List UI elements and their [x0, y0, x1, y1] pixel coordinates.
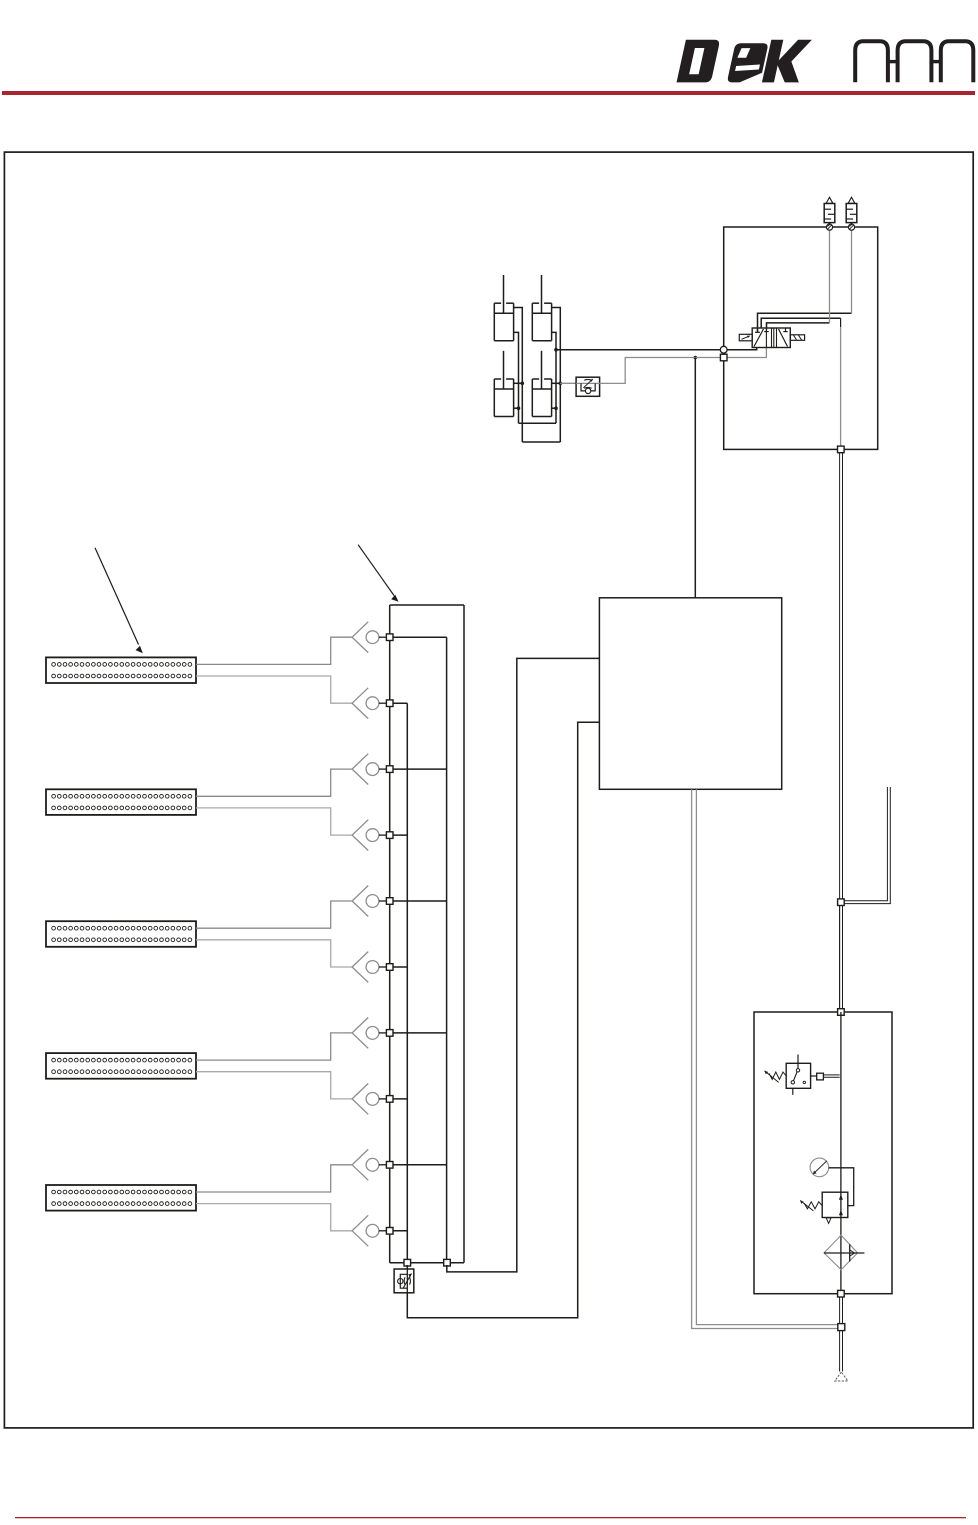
- manifold bus line: [389, 605, 391, 1263]
- bus node 4: [386, 832, 393, 839]
- manifold stub 10: [390, 1230, 408, 1232]
- bulkhead circle node: [720, 346, 727, 353]
- cylinder BR: [532, 351, 551, 417]
- TL bottom port pipe: [514, 332, 519, 423]
- junction dots: [517, 348, 697, 410]
- hose plate 1 lower: [196, 676, 352, 703]
- bus node 9: [386, 1162, 393, 1169]
- bus node 5: [386, 898, 393, 905]
- manifold right edge: [463, 605, 465, 1263]
- manifold stub 5: [390, 900, 447, 902]
- pipe flow valve to valve port: [600, 348, 767, 384]
- vacuum tooling plate 1: [46, 657, 196, 683]
- supply double line mid: [840, 453, 843, 1009]
- valve 5/2: [739, 328, 804, 348]
- manifold stub 7: [390, 1032, 447, 1034]
- pipe flowvalve to pump: [407, 722, 599, 1317]
- bus node 7: [386, 1030, 393, 1037]
- pipe rod-side to flow valve: [560, 382, 576, 384]
- manifold stub 6: [390, 966, 408, 968]
- pressure gauge: [810, 1158, 854, 1206]
- pressure switch: [765, 1055, 840, 1095]
- manifold bottom edge: [390, 1262, 464, 1264]
- hose plate 2 upper: [196, 769, 352, 796]
- leader arrow to plate: [95, 548, 143, 654]
- FRL box: [754, 1012, 892, 1294]
- bus node 10: [386, 1228, 393, 1235]
- exhaust silencer right: [846, 197, 857, 230]
- enclosure (print head): [724, 227, 878, 449]
- BR top port pipe: [552, 382, 561, 384]
- FRL top node: [838, 1009, 845, 1016]
- vacuum pump box: [599, 598, 781, 790]
- bus node 2: [386, 700, 393, 707]
- pipe channel A down: [406, 1265, 408, 1269]
- silencer drop left: [829, 230, 831, 323]
- bulkhead square node: [720, 354, 727, 361]
- supply line upper: [840, 318, 842, 449]
- bus node 3: [386, 766, 393, 773]
- hose plate 2 lower: [196, 808, 352, 835]
- vacuum tooling plate 2: [46, 789, 196, 815]
- quick coupling 1: [352, 622, 386, 653]
- valve pipe to right silencer: [758, 313, 852, 332]
- header red rule: [2, 91, 975, 95]
- quick coupling 6: [352, 952, 386, 983]
- valve pipe to supply: [761, 318, 840, 328]
- bus node 1: [386, 634, 393, 641]
- flow control valve FC2 (manifold): [394, 1269, 414, 1293]
- hose plate 5 upper: [196, 1165, 352, 1192]
- piston-side header: [519, 422, 557, 424]
- valve pipe to left silencer: [767, 323, 830, 328]
- quick coupling 8: [352, 1084, 386, 1115]
- BR bottom port pipe: [552, 407, 556, 409]
- manifold stub 3: [390, 768, 447, 770]
- quick coupling 3: [352, 754, 386, 785]
- cylinder TR: [532, 275, 551, 341]
- vacuum tooling plate 4: [46, 1053, 196, 1079]
- manifold stub 8: [390, 1098, 408, 1100]
- DEK logo: [677, 40, 812, 83]
- manifold bottom node A: [404, 1259, 411, 1266]
- pipe channel B to pump: [447, 658, 600, 1272]
- hose plate 3 lower: [196, 940, 352, 967]
- manifold stub 2: [390, 702, 408, 704]
- manifold top edge: [390, 604, 464, 606]
- hose plate 4 lower: [196, 1072, 352, 1099]
- hose plate 1 upper: [196, 637, 352, 664]
- FRL main line: [840, 1012, 842, 1294]
- arches logo: [855, 41, 973, 82]
- cylinder TL: [494, 275, 513, 341]
- manifold channel B: [446, 637, 448, 1262]
- manifold stub 4: [390, 834, 408, 836]
- TR bottom port pipe: [552, 332, 556, 423]
- supply double to source: [840, 1331, 843, 1372]
- manifold stub 1: [390, 636, 447, 638]
- rod-side header: [522, 441, 560, 443]
- hose plate 4 upper: [196, 1033, 352, 1060]
- bus node 8: [386, 1096, 393, 1103]
- supply drop to FRL: [840, 906, 843, 1013]
- hose plate 5 lower: [196, 1204, 352, 1231]
- leader arrow to manifold: [358, 545, 399, 602]
- exhaust silencer left: [824, 197, 835, 230]
- TR top port pipe: [552, 308, 561, 443]
- cylinder BL: [494, 351, 513, 417]
- manifold stub 9: [390, 1164, 447, 1166]
- manifold bottom node B: [444, 1259, 451, 1266]
- branch node: [838, 899, 845, 906]
- quick coupling 2: [352, 688, 386, 719]
- BL bottom port pipe: [514, 407, 519, 409]
- quick coupling 7: [352, 1018, 386, 1049]
- TL top port pipe: [514, 308, 523, 443]
- branch stub double line: [844, 787, 890, 904]
- pipe valve node to pump: [694, 358, 696, 598]
- quick coupling 4: [352, 820, 386, 851]
- pipe cylinders to valve port: [556, 348, 757, 350]
- footer red rule: [15, 1517, 966, 1518]
- FRL bottom node: [838, 1290, 845, 1297]
- silencer drop right: [851, 230, 853, 313]
- quick coupling 10: [352, 1215, 386, 1246]
- pump exhaust double line: [692, 789, 839, 1328]
- supply junction node: [838, 1324, 845, 1331]
- BL top port pipe: [514, 382, 523, 384]
- supply double below FRL: [840, 1297, 843, 1327]
- vacuum tooling plate 3: [46, 921, 196, 947]
- quick coupling 9: [352, 1149, 386, 1180]
- pressure regulator: [800, 1192, 848, 1223]
- hose plate 3 upper: [196, 901, 352, 928]
- filter separator: [824, 1235, 864, 1270]
- vacuum tooling plate 5: [46, 1185, 196, 1211]
- quick coupling 5: [352, 886, 386, 917]
- bus node 6: [386, 964, 393, 971]
- air supply triangle: [835, 1372, 848, 1381]
- manifold channel A: [406, 703, 408, 1262]
- flow control valve FC1 (cylinders): [576, 377, 600, 396]
- enclosure bottom node: [838, 446, 845, 453]
